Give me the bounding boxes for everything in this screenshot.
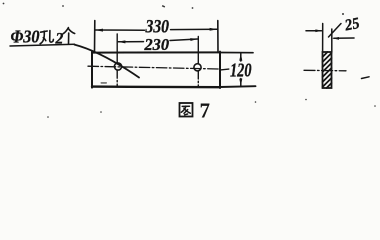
horizontal centerline — [88, 66, 219, 69]
stray mark dash right — [362, 77, 370, 79]
hole 2 — [194, 64, 201, 71]
hatching — [323, 52, 332, 88]
330 dimension line left segment — [96, 29, 145, 31]
120 bottom arrow — [239, 79, 242, 87]
330 dimension line right segment — [171, 28, 218, 30]
svg-text:120: 120 — [230, 61, 252, 82]
side view — [304, 24, 354, 89]
hole 1 — [114, 63, 121, 70]
120 dimension line bottom segment — [240, 79, 242, 87]
25 leader diagonal — [329, 24, 342, 38]
120 top arrow — [239, 53, 242, 61]
top edge extension right — [220, 52, 253, 54]
230 dimension line left segment — [118, 41, 143, 43]
plate right edge — [219, 52, 221, 88]
230 dimension line right segment — [170, 39, 198, 41]
svg-text:230: 230 — [144, 35, 169, 54]
25 right extension line — [331, 29, 333, 52]
25 dim line left — [306, 30, 322, 32]
bottom edge extension right — [220, 85, 256, 88]
hole2 vertical centerline / 230 extension — [197, 37, 199, 64]
plate bottom edge — [92, 85, 220, 88]
hole1 vertical centerline / 230 extension — [116, 34, 118, 62]
plate left edge — [91, 52, 93, 88]
leader line from label to hole1 — [75, 45, 140, 78]
330 left extension line — [94, 21, 96, 53]
side view centerline — [304, 69, 346, 72]
25 left extension line — [322, 24, 324, 53]
svg-text:2: 2 — [55, 31, 64, 48]
label underline — [10, 44, 75, 46]
25 dim line right — [334, 37, 354, 39]
side view rectangle — [323, 52, 332, 88]
scan specks — [3, 3, 376, 118]
plate outline front view: top edge — [92, 51, 220, 53]
230 right arrow — [190, 38, 198, 41]
330 right extension line — [217, 21, 219, 53]
label hanzi kong (hole) — [40, 31, 53, 44]
arrowheads front view — [95, 28, 242, 86]
svg-text:7: 7 — [200, 99, 211, 123]
label hanzi ge (piece) — [63, 28, 75, 44]
caption hanzi tu (figure) — [180, 103, 193, 117]
330 right arrow — [210, 28, 218, 31]
svg-text:25: 25 — [343, 15, 361, 35]
svg-text:Φ30: Φ30 — [11, 27, 40, 47]
120 dimension line top segment — [240, 53, 242, 61]
230 left arrow — [117, 40, 125, 43]
25 arrows — [315, 29, 339, 39]
330 left arrow — [95, 29, 103, 32]
